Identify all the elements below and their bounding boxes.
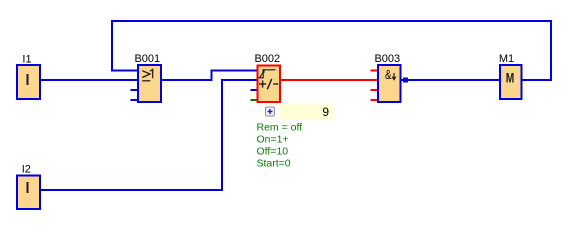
svg-text:M1: M1	[499, 53, 514, 65]
pin stub B003 input 1 (open, red)	[371, 70, 378, 72]
svg-text:B002: B002	[254, 53, 280, 65]
symbol +/- in B002	[259, 79, 278, 90]
expand button (plus box) under B002	[266, 107, 275, 116]
input block I2	[17, 176, 40, 210]
tooltip box with value 9	[280, 104, 333, 120]
symbol I (bar) in I2	[27, 182, 29, 193]
svg-text:B001: B001	[134, 53, 160, 65]
symbol down arrow in B003	[392, 73, 396, 80]
wire: feedback M1 output to B001 input 1	[112, 21, 551, 80]
wire: B003 output to M1 input	[401, 79, 499, 81]
wire: I2 output to B002 input 2	[41, 80, 257, 190]
svg-text:Start=0: Start=0	[257, 158, 291, 170]
svg-text:I2: I2	[22, 164, 31, 176]
pin stub B001 input 3	[131, 89, 138, 91]
pin stub B003 input 4 (open, red)	[371, 99, 378, 101]
up/down counter block B002 (selected, red border)	[258, 66, 281, 103]
wire: B001 output to B002 input 1	[161, 71, 257, 81]
node: connection handle square on B003 output	[403, 78, 408, 83]
input block I1	[17, 65, 40, 99]
svg-text:I1: I1	[22, 54, 31, 66]
symbol step waveform with up arrow in B002	[259, 70, 276, 78]
pin stub B002 input 4 (analog, green)	[251, 99, 258, 101]
symbol >=1 in B001	[142, 69, 152, 80]
wire: B002 output to B003 input 2 (selected, red)	[281, 79, 377, 81]
AND falling-edge block B003	[378, 65, 401, 102]
pin stub B002 input 3	[251, 89, 258, 91]
svg-text:B003: B003	[374, 53, 400, 65]
svg-text:9: 9	[322, 105, 329, 119]
wire: I1 output to B001 input 2	[41, 79, 137, 81]
svg-text:&: &	[385, 67, 392, 82]
symbol I (bar) in I1	[27, 74, 29, 85]
OR block B001	[138, 65, 161, 102]
svg-text:M: M	[506, 70, 515, 85]
marker/flag block M1	[500, 65, 522, 99]
pin stub B001 input 4	[131, 99, 138, 101]
pin stub B003 input 3 (open, red)	[371, 89, 378, 91]
svg-text:Off=10: Off=10	[257, 146, 289, 158]
svg-text:Rem = off: Rem = off	[257, 122, 303, 134]
svg-text:On=1+: On=1+	[257, 134, 289, 146]
